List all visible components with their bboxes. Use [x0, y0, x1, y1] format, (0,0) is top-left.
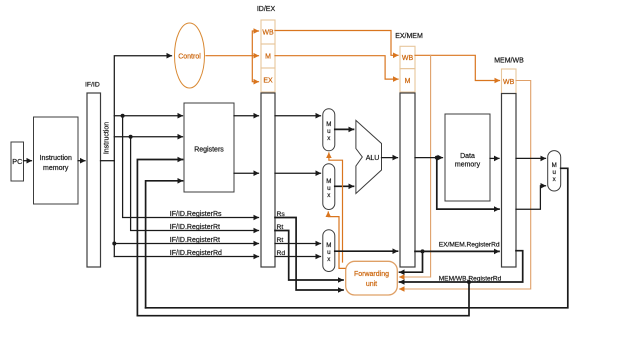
svg-text:M: M	[405, 78, 411, 85]
ID/EX EX box	[261, 68, 275, 92]
wire ID/EX WB to EX/MEM WB	[275, 31, 398, 56]
svg-text:Data: Data	[460, 153, 475, 160]
svg-text:Registers: Registers	[194, 147, 224, 154]
svg-text:Instruction: Instruction	[104, 122, 111, 154]
svg-text:x: x	[327, 256, 331, 263]
wire Rs to forwarding unit	[275, 218, 343, 291]
svg-text:u: u	[327, 185, 331, 192]
ID/EX M box	[261, 44, 275, 68]
wire data memory read data to MEM/WB	[490, 157, 499, 159]
svg-text:ALU: ALU	[366, 155, 380, 162]
wire write register from bottom loop	[137, 160, 182, 316]
node junction dot on bus for Rt2	[112, 242, 116, 246]
control unit	[175, 23, 205, 88]
data memory	[445, 114, 490, 201]
wire Rt to mux3	[275, 243, 321, 245]
svg-text:memory: memory	[43, 165, 69, 172]
node junction dot EX/MEM Rd	[421, 249, 425, 253]
svg-text:memory: memory	[455, 162, 481, 169]
wire ForwardA mux1 control	[329, 153, 343, 262]
wire instruction bus vertical	[114, 56, 171, 161]
EX/MEM WB box	[400, 46, 415, 68]
wire Rs field tap down	[123, 116, 259, 218]
svg-text:x: x	[553, 176, 557, 183]
svg-text:u: u	[327, 249, 331, 256]
svg-text:M: M	[326, 242, 331, 249]
MEM/WB WB box	[502, 69, 517, 94]
EX/MEM M box	[400, 69, 415, 92]
wire read data 2 to ID/EX	[234, 172, 259, 174]
wire read register 1	[114, 115, 182, 117]
PC register box	[11, 142, 24, 181]
svg-text:M: M	[326, 121, 331, 128]
wire ALU result bypass to MEM/WB	[437, 158, 499, 210]
wire instruction memory to IF/ID	[78, 160, 85, 162]
node junction dot ALU result	[435, 156, 439, 160]
svg-text:unit: unit	[366, 281, 377, 288]
wire MEM/WB read data to mux4	[516, 157, 546, 159]
wire MEM/WB ALU result to mux4	[516, 186, 546, 209]
wire read register 2	[114, 136, 182, 138]
svg-text:u: u	[552, 169, 556, 176]
svg-text:IF/ID.RegisterRs: IF/ID.RegisterRs	[170, 211, 222, 218]
wire MEM/WB Rd down to bottom loop	[137, 282, 469, 316]
svg-text:MEM/WB: MEM/WB	[494, 58, 524, 65]
ID/EX pipeline register	[261, 93, 275, 267]
IF/ID pipeline register	[87, 93, 101, 267]
MEM/WB pipeline register	[502, 94, 517, 268]
mux4 write back	[548, 151, 561, 191]
svg-text:Control: Control	[178, 54, 201, 61]
wire write data from bottom loop	[146, 181, 183, 308]
wire EX/MEM Rd to MEM/WB	[415, 250, 499, 252]
wire mux3 to EX/MEM Rd	[335, 250, 398, 252]
wire IF/ID output to instruction bus	[101, 160, 115, 162]
svg-text:PC: PC	[12, 157, 22, 166]
svg-text:IF/ID.RegisterRt: IF/ID.RegisterRt	[170, 237, 220, 244]
svg-text:Instruction: Instruction	[40, 155, 72, 162]
wire Rt field tap down	[131, 137, 259, 231]
svg-text:EX/MEM: EX/MEM	[395, 33, 423, 40]
svg-text:Forwarding: Forwarding	[354, 271, 389, 278]
wire control to ID/EX bracket	[206, 55, 259, 57]
svg-text:ID/EX: ID/EX	[257, 6, 276, 13]
wire EX/MEM WB to MEM/WB WB	[415, 55, 500, 80]
wire EX/MEM ALU result to data memory	[415, 157, 443, 159]
mux2 ALU operand B	[323, 164, 335, 210]
wire Rd to mux3	[275, 256, 321, 258]
svg-text:IF/ID.RegisterRd: IF/ID.RegisterRd	[170, 250, 222, 257]
wire ALU result to EX/MEM	[382, 157, 398, 159]
svg-text:M: M	[326, 178, 331, 185]
wire ID/EX to mux2	[275, 172, 321, 174]
svg-text:M: M	[265, 54, 271, 61]
wire ID/EX to mux1	[275, 115, 321, 117]
register file	[184, 103, 234, 192]
wire Rt field line 3	[114, 243, 258, 245]
wire Rt to forwarding unit	[275, 231, 343, 281]
instruction memory	[34, 117, 79, 204]
svg-text:WB: WB	[503, 79, 515, 86]
wire mux4 output bottom loop to write data	[146, 168, 568, 307]
wire Rd field line 4	[114, 256, 258, 258]
svg-text:IF/ID.RegisterRt: IF/ID.RegisterRt	[170, 224, 220, 231]
svg-text:MEM/WB.RegisterRd: MEM/WB.RegisterRd	[439, 275, 502, 282]
svg-text:EX: EX	[263, 78, 273, 85]
svg-text:x: x	[327, 192, 331, 199]
svg-text:u: u	[327, 128, 331, 135]
ID/EX WB box	[261, 20, 275, 44]
wire mux1 to ALU	[335, 128, 354, 130]
mux1 ALU operand A	[323, 109, 335, 151]
node junction dot MEM/WB Rd	[467, 280, 471, 284]
wire MEM/WB WB control to forwarding unit	[400, 81, 531, 290]
wire MEM/WB Rd loop	[400, 251, 523, 282]
svg-text:M: M	[552, 162, 557, 169]
EX/MEM pipeline register	[400, 93, 415, 267]
ALU	[356, 120, 382, 193]
wire ForwardB mux2 control	[328, 212, 345, 268]
mux3 register destination	[323, 230, 335, 272]
svg-text:EX/MEM.RegisterRd: EX/MEM.RegisterRd	[439, 242, 500, 249]
svg-text:x: x	[327, 135, 331, 142]
wire ID/EX M to EX/MEM M	[275, 56, 398, 79]
wire read data 1 to ID/EX	[234, 115, 259, 117]
svg-text:WB: WB	[262, 30, 274, 37]
node junction dot rt tap	[129, 135, 133, 139]
wire PC to instruction memory	[24, 160, 32, 162]
svg-text:WB: WB	[402, 55, 414, 62]
wire EX/MEM.RegisterRd to forwarding unit	[400, 251, 423, 272]
wire mux2 to ALU	[335, 185, 354, 187]
wire EX/MEM WB control down to forwarding unit	[400, 55, 431, 277]
node junction dot rs tap	[121, 114, 125, 118]
forwarding unit	[346, 261, 398, 295]
svg-text:IF/ID: IF/ID	[85, 82, 100, 89]
